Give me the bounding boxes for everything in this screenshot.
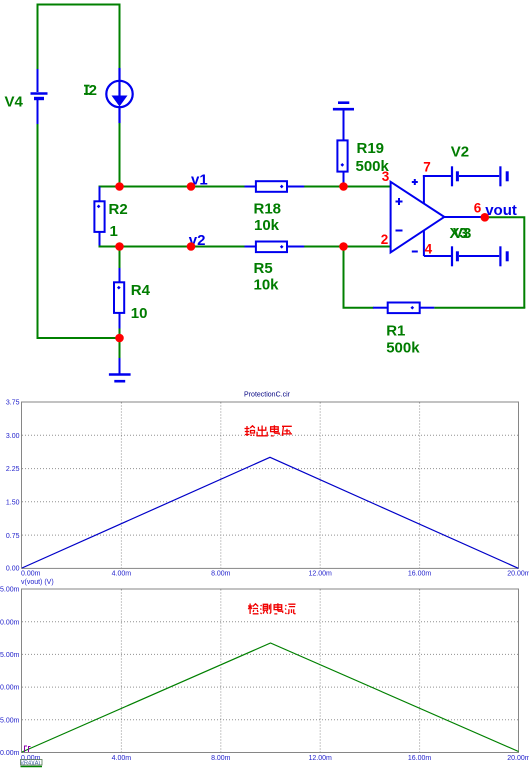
wire R1 to right rail xyxy=(434,307,525,309)
plot 2 legend xyxy=(21,760,43,767)
svg-text:30.00m: 30.00m xyxy=(0,685,20,692)
wire vout to right rail xyxy=(481,217,524,307)
svg-text:10k: 10k xyxy=(254,277,280,294)
value 500k of R19 xyxy=(356,158,390,175)
battery V4 xyxy=(31,69,48,124)
svg-text:4.00m: 4.00m xyxy=(112,571,132,578)
svg-text:8.00m: 8.00m xyxy=(211,571,231,578)
wire R4 top xyxy=(119,247,121,270)
svg-text:10: 10 xyxy=(131,305,148,322)
plot 1 waveform v(vout) xyxy=(22,457,518,568)
junction R19-pin3 xyxy=(339,182,348,191)
plot 1 label 输出电压 xyxy=(245,425,293,436)
resistor R2 xyxy=(94,187,104,247)
wire v1 rail xyxy=(100,187,391,188)
resistor R5 xyxy=(245,242,305,253)
label R2 xyxy=(109,201,128,218)
svg-text:R19: R19 xyxy=(357,140,385,157)
plot 1 frame xyxy=(22,402,519,568)
value 10k of R5 xyxy=(254,277,280,294)
label R19 xyxy=(357,140,385,157)
resistor R19 xyxy=(337,110,347,186)
resistor R4 xyxy=(114,268,124,329)
svg-text:3.75: 3.75 xyxy=(6,400,20,407)
value 10k of R18 xyxy=(254,217,280,234)
node v2 xyxy=(189,232,206,249)
pin 2 xyxy=(381,232,389,247)
svg-text:12.00m: 12.00m xyxy=(309,571,333,578)
junction pin2-feedback xyxy=(339,242,348,251)
junction v2-R4 xyxy=(115,242,124,251)
label R18 xyxy=(254,201,282,218)
junction node v2 xyxy=(187,242,196,251)
current source I2 xyxy=(106,68,132,123)
svg-text:16.00m: 16.00m xyxy=(408,571,432,578)
svg-text:12.00m: 12.00m xyxy=(309,755,333,762)
svg-text:V3: V3 xyxy=(453,225,471,242)
value 10 of R4 xyxy=(131,305,148,322)
wire R4 bottom to ground node xyxy=(119,329,121,360)
pin 6 output stub xyxy=(444,216,482,218)
plot 1 x-axis labels xyxy=(21,571,529,578)
label V3 xyxy=(453,225,471,242)
pin 4 xyxy=(425,242,433,257)
svg-text:V2: V2 xyxy=(451,144,469,161)
svg-text:75.00m: 75.00m xyxy=(0,587,20,594)
wire pin7 to V2 xyxy=(423,175,451,177)
svg-text:16.00m: 16.00m xyxy=(408,755,432,762)
svg-text:6: 6 xyxy=(474,201,482,216)
ground xyxy=(109,358,131,381)
svg-text:15.00m: 15.00m xyxy=(0,717,20,724)
plot 1 y-axis labels xyxy=(6,400,20,573)
resistor R1 xyxy=(373,303,434,314)
svg-text:V4: V4 xyxy=(5,94,24,111)
label R5 xyxy=(254,260,273,277)
label R4 xyxy=(131,282,151,299)
label V4 xyxy=(5,94,24,111)
plot 2 label 检测电流 xyxy=(248,603,296,614)
pin 3 xyxy=(382,169,390,184)
plot 2 frame xyxy=(22,589,519,753)
label I2 xyxy=(84,82,97,99)
svg-text:R5: R5 xyxy=(254,260,273,277)
node v1 xyxy=(191,172,208,189)
svg-text:0.00m: 0.00m xyxy=(0,750,20,757)
plot 1 legend v(vout) (V) xyxy=(21,579,54,586)
battery V3 xyxy=(452,246,507,266)
svg-text:0.75: 0.75 xyxy=(6,533,20,540)
svg-text:60.00m: 60.00m xyxy=(0,619,20,626)
junction v1-I2 xyxy=(115,182,124,191)
plot 2 gridlines xyxy=(22,590,518,753)
svg-text:2.25: 2.25 xyxy=(6,466,20,473)
value 500k of R1 xyxy=(386,340,420,357)
svg-text:R1: R1 xyxy=(386,323,405,340)
pin 7 xyxy=(423,159,431,174)
svg-text:1.50: 1.50 xyxy=(6,500,20,507)
svg-text:45.00m: 45.00m xyxy=(0,652,20,659)
svg-text:0.00: 0.00 xyxy=(6,566,20,573)
junction vout xyxy=(481,213,490,222)
svg-text:20.00m: 20.00m xyxy=(507,755,529,762)
wire feedback left leg xyxy=(344,247,374,308)
pin 7 supply riser xyxy=(412,175,424,204)
plot 1 gridlines xyxy=(22,403,518,569)
node vout xyxy=(485,202,517,219)
svg-text:1: 1 xyxy=(110,223,118,240)
value 1 of R2 xyxy=(110,223,118,240)
junction node v1 xyxy=(187,182,196,191)
wire pin4 to V3 xyxy=(424,255,451,257)
wire v2 rail xyxy=(100,246,391,247)
svg-text:R2: R2 xyxy=(109,201,128,218)
svg-text:i(R4)(A): i(R4)(A) xyxy=(21,761,40,767)
wire top loop V4 to I2 xyxy=(38,5,120,70)
svg-text:R18: R18 xyxy=(254,201,282,218)
plot 2 x-axis labels xyxy=(21,755,529,762)
svg-text:500k: 500k xyxy=(386,340,420,357)
svg-text:7: 7 xyxy=(423,159,431,174)
wire left leg V4 bottom xyxy=(38,124,120,338)
pin 4 supply riser xyxy=(412,230,424,256)
svg-text:8.00m: 8.00m xyxy=(211,755,231,762)
label V2 xyxy=(451,144,469,161)
svg-text:2: 2 xyxy=(381,232,389,247)
inverted ground above R19 xyxy=(333,103,354,110)
svg-text:10k: 10k xyxy=(254,217,280,234)
svg-text:3: 3 xyxy=(382,169,390,184)
svg-text:0.00m: 0.00m xyxy=(21,571,41,578)
svg-text:4: 4 xyxy=(425,242,433,257)
svg-text:I2: I2 xyxy=(85,82,98,99)
op-amp U1 X3 xyxy=(391,182,445,253)
svg-text:3.00: 3.00 xyxy=(6,433,20,440)
plot 2 cursor mark xyxy=(25,746,31,752)
svg-text:R4: R4 xyxy=(131,282,151,299)
plot 2 y-axis labels xyxy=(0,587,20,758)
svg-text:ProtectionC.cir: ProtectionC.cir xyxy=(244,392,291,399)
plot 2 waveform i detection xyxy=(22,643,519,752)
pin 6 xyxy=(474,201,482,216)
svg-text:4.00m: 4.00m xyxy=(112,755,132,762)
label X3 xyxy=(450,225,468,242)
plot 1 title xyxy=(244,392,291,399)
wire I2 down to v1 rail xyxy=(119,123,121,187)
battery V2 xyxy=(452,166,507,186)
svg-text:v(vout) (V): v(vout) (V) xyxy=(21,579,54,586)
junction ground node xyxy=(115,334,124,343)
resistor R18 xyxy=(245,181,305,192)
label R1 xyxy=(386,323,405,340)
svg-text:20.00m: 20.00m xyxy=(507,571,529,578)
